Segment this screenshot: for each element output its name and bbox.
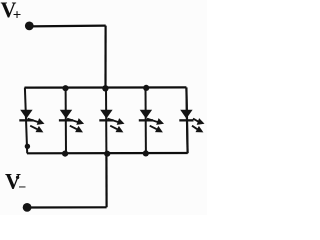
wire bottom bus	[27, 152, 188, 155]
LED D2	[59, 88, 84, 154]
junction top bus / D2	[62, 85, 68, 91]
terminal V-	[23, 203, 32, 212]
junction left edge	[25, 144, 30, 149]
svg-text:+: +	[13, 7, 22, 23]
LED D4	[139, 88, 164, 154]
wire V- horizontal	[27, 206, 107, 208]
node V+ label	[1, 0, 22, 23]
wire V+ horizontal	[29, 25, 106, 28]
LED D1	[19, 88, 44, 154]
wire right edge	[186, 87, 187, 153]
wire V+ vertical feed	[104, 26, 106, 88]
svg-text:−: −	[18, 181, 26, 196]
LED D5	[179, 88, 204, 154]
wire top bus	[25, 86, 187, 88]
wire V- vertical feed	[105, 153, 107, 207]
junction bottom bus / D2	[62, 151, 68, 157]
LED D3	[99, 88, 124, 154]
junction top bus / D4	[143, 85, 149, 91]
node V- label	[5, 168, 26, 195]
junction bottom bus / V- feed	[104, 151, 110, 157]
terminal V+	[25, 22, 34, 31]
junction top bus / V+ feed	[102, 85, 108, 91]
junction bottom bus / D4	[143, 150, 149, 156]
